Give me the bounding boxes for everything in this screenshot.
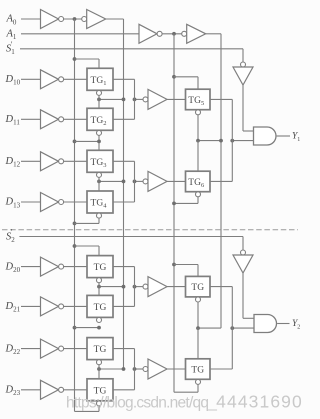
svg-text:Y2: Y2	[292, 319, 300, 331]
svg-text:TG: TG	[94, 345, 107, 355]
svg-text:TG: TG	[94, 303, 107, 313]
svg-text:TG: TG	[94, 263, 107, 273]
svg-text:Y1: Y1	[292, 131, 300, 143]
svg-text:TG: TG	[191, 283, 204, 293]
svg-text:D23: D23	[5, 385, 21, 398]
svg-text:A0: A0	[6, 14, 17, 27]
svg-text:D20: D20	[5, 261, 21, 274]
svg-text:https://blog.csdn.net/qq_44431: https://blog.csdn.net/qq_44431690	[66, 392, 303, 412]
svg-text:D10: D10	[5, 74, 21, 87]
svg-text:D12: D12	[5, 156, 21, 169]
svg-text:D22: D22	[5, 343, 21, 356]
svg-text:S1′: S1′	[6, 40, 15, 56]
svg-text:D11: D11	[5, 114, 21, 127]
svg-text:D13: D13	[5, 197, 21, 210]
svg-text:D21: D21	[5, 301, 21, 314]
svg-text:TG: TG	[191, 366, 204, 376]
